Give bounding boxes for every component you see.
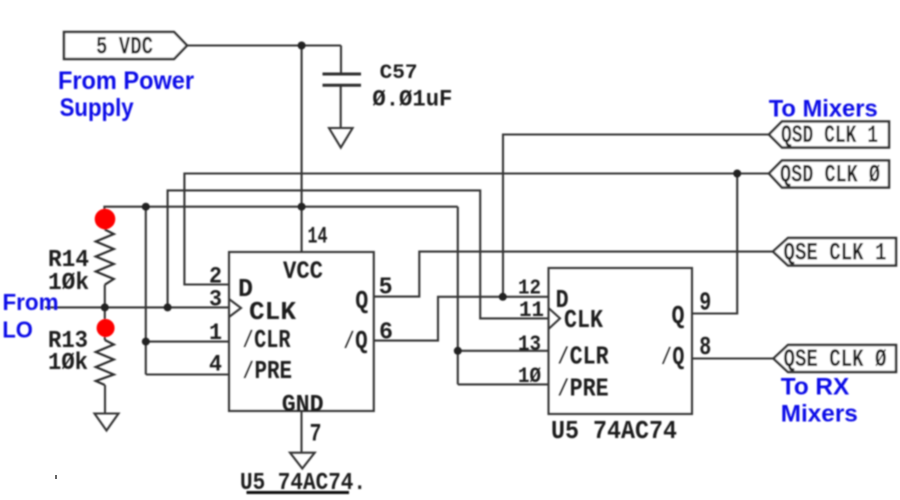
svg-text:U5 74AC74: U5 74AC74 [551, 416, 677, 446]
svg-text:Q: Q [672, 301, 685, 331]
flip-flop U5A box (74AC74) [229, 252, 374, 411]
resistor R13 [96, 340, 114, 385]
junction rail/R14 branch [142, 203, 150, 211]
wire U5b /Q to QSE CLK 0 [692, 357, 774, 359]
stray mark [55, 475, 57, 479]
wire R13 bottom to ground [104, 385, 106, 413]
svg-text:11: 11 [519, 298, 544, 323]
resistor R14 [96, 230, 114, 285]
svg-text:∕Q: ∕Q [343, 326, 368, 356]
wire QSD CLK 1 [503, 135, 769, 297]
wire U5a GND pin7 [300, 412, 302, 453]
svg-text:QSD CLK 1: QSD CLK 1 [781, 121, 878, 150]
wire R14 bottom to node LO [104, 285, 106, 308]
wire node LO to R13 top [104, 307, 106, 340]
junction 5VDC/C57 [298, 42, 306, 50]
wire U5b /CLR /PRE pullup [458, 207, 549, 385]
wire U5a /CLR /PRE pullup [146, 207, 229, 375]
svg-text:To RX: To RX [781, 374, 849, 401]
svg-text:CLK: CLK [249, 297, 296, 327]
svg-text:QSE CLK Ø: QSE CLK Ø [784, 345, 887, 374]
svg-text:1Øk: 1Øk [48, 350, 88, 377]
wire U5a Q to QSE CLK 1 [374, 252, 773, 297]
svg-text:5: 5 [379, 275, 393, 302]
ground at C57 [329, 128, 353, 148]
red marker dot 2 [97, 319, 115, 337]
svg-text:From Power: From Power [58, 67, 194, 95]
junction U5b /CLR branch [454, 347, 462, 355]
svg-text:7: 7 [310, 420, 322, 449]
svg-text:Mixers: Mixers [781, 401, 858, 428]
svg-text:Ø.Ø1uF: Ø.Ø1uF [372, 87, 452, 113]
junction QSD CLK 0 / U5b Q [733, 170, 741, 178]
svg-text:CLK: CLK [564, 305, 603, 335]
svg-text:QSE CLK 1: QSE CLK 1 [784, 239, 887, 268]
junction rail/VCC [298, 203, 306, 211]
svg-text:3: 3 [209, 287, 222, 313]
svg-text:4: 4 [209, 352, 222, 378]
wire VCC drop to U5a pin14 [301, 46, 303, 253]
node flag QSE CLK 0 [774, 345, 897, 372]
svg-text:6: 6 [379, 320, 393, 347]
svg-text:∕Q: ∕Q [660, 342, 684, 372]
wire C57 bottom to ground [340, 86, 342, 129]
svg-text:∕PRE: ∕PRE [242, 356, 292, 386]
U5b CLK input triangle [549, 308, 561, 329]
svg-text:To Mixers: To Mixers [769, 96, 878, 123]
svg-text:9: 9 [699, 287, 711, 317]
svg-text:1: 1 [209, 320, 222, 346]
svg-text:GND: GND [282, 392, 324, 419]
svg-text:C57: C57 [380, 62, 418, 85]
junction U5a /CLR branch [142, 338, 150, 346]
junction node LO at R13/R14 [101, 303, 109, 311]
wire LO branch (line2) [168, 190, 549, 318]
wire U5a /Q to U5b D [374, 297, 549, 341]
junction QSD CLK 1 / U5b D [499, 293, 507, 301]
ground at R13 [95, 414, 119, 431]
power flag 5 VDC [64, 32, 187, 59]
node flag QSE CLK 1 [773, 238, 896, 266]
caption underline [247, 491, 350, 494]
wire From LO [45, 306, 228, 308]
svg-text:Supply: Supply [60, 94, 134, 122]
node flag QSD CLK 1 [769, 122, 889, 148]
svg-text:From: From [3, 289, 59, 315]
ground at U5a pin7 [290, 453, 315, 469]
capacitor C57 [323, 74, 362, 85]
svg-text:VCC: VCC [283, 257, 323, 286]
node flag QSD CLK 0 [769, 161, 889, 188]
svg-text:∕CLR: ∕CLR [242, 325, 291, 355]
svg-text:14: 14 [308, 224, 328, 250]
svg-text:∕PRE: ∕PRE [557, 374, 609, 404]
junction node LO branch [164, 303, 172, 311]
svg-text:LO: LO [2, 317, 33, 343]
U5a CLK input triangle [229, 299, 241, 317]
svg-text:1Ø: 1Ø [518, 364, 541, 389]
wire 5VDC net top [187, 46, 341, 75]
red marker dot 1 [95, 209, 116, 230]
flip-flop U5B box (74AC74) [549, 268, 693, 414]
svg-text:8: 8 [699, 332, 711, 362]
svg-text:Q: Q [355, 286, 368, 316]
wire feedback QSD CLK 0 (line1) [184, 174, 769, 314]
svg-text:∕CLR: ∕CLR [557, 342, 609, 372]
svg-text:5 VDC: 5 VDC [96, 33, 153, 62]
svg-text:13: 13 [518, 332, 541, 357]
wire +5V rail (line3) [104, 207, 457, 230]
svg-text:QSD CLK Ø: QSD CLK Ø [780, 161, 880, 190]
